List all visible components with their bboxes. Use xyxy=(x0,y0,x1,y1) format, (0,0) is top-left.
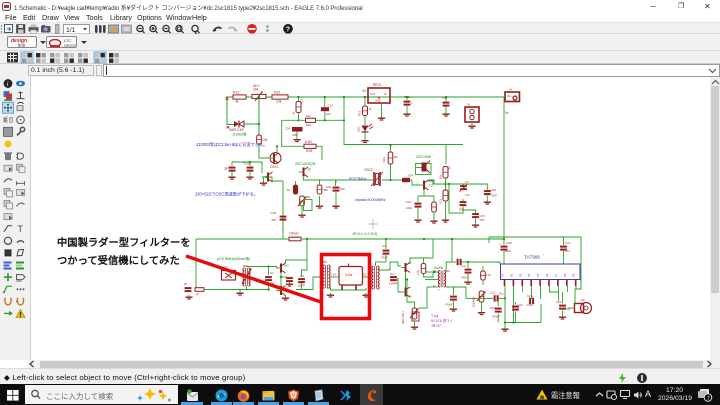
svg-text:IN: IN xyxy=(384,92,387,96)
svg-text:P3: P3 xyxy=(433,285,437,288)
IC pins xyxy=(504,280,506,287)
ground under X1 xyxy=(471,124,473,126)
toolbar row 3 layers xyxy=(0,51,720,64)
resistor RA xyxy=(195,288,204,292)
svg-text:C?L: C?L xyxy=(465,193,471,197)
command row xyxy=(0,64,720,77)
wire bias bus xyxy=(344,97,463,145)
svg-text:9V: 9V xyxy=(362,89,367,93)
svg-text:VARI-CAP: VARI-CAP xyxy=(229,128,244,132)
svg-text:T1は: T1は xyxy=(431,313,439,318)
ground c16 xyxy=(562,315,564,317)
ground under C22 xyxy=(249,175,251,177)
resistor R30 xyxy=(432,202,437,212)
capacitor C16 xyxy=(559,305,566,307)
ground right mixer xyxy=(475,223,477,225)
ground under R8 xyxy=(445,218,447,220)
svg-text:JR+37: JR+37 xyxy=(431,324,441,328)
svg-text:C9: C9 xyxy=(462,264,466,268)
svg-text:C4: C4 xyxy=(390,272,394,276)
svg-text:P7: P7 xyxy=(554,273,558,277)
svg-text:中国製ラダー型フィルターを: 中国製ラダー型フィルターを xyxy=(57,236,191,249)
svg-text:2P: 2P xyxy=(224,167,228,171)
ground filter left xyxy=(330,293,332,295)
svg-text:C38: C38 xyxy=(506,241,512,245)
svg-text:(MD+RD-): (MD+RD-) xyxy=(401,311,405,324)
horizontal scrollbar xyxy=(28,360,720,368)
svg-text:2P: 2P xyxy=(184,282,188,286)
capacitor C8 inline xyxy=(457,259,459,265)
svg-text:6.8C: 6.8C xyxy=(305,140,313,144)
svg-text:5k: 5k xyxy=(307,195,311,199)
svg-text:pCE 8MHz(50mm角): pCE 8MHz(50mm角) xyxy=(217,256,250,261)
svg-text:OSC2: OSC2 xyxy=(364,168,373,172)
svg-text:P4: P4 xyxy=(527,273,531,277)
capacitor C11b 100u xyxy=(415,203,422,205)
svg-text:OSC1: OSC1 xyxy=(270,165,279,169)
svg-text:Y': Y' xyxy=(438,288,441,292)
svg-text:+: + xyxy=(411,101,413,105)
wire t2 collector net xyxy=(429,180,435,184)
capacitor C15 J20 xyxy=(280,216,287,218)
svg-text:2N5: 2N5 xyxy=(284,264,290,268)
ground q2 xyxy=(285,296,287,298)
IC TA7368 body xyxy=(501,264,581,280)
svg-text:R23: R23 xyxy=(300,99,304,104)
svg-text:100u: 100u xyxy=(406,206,413,210)
ground filter right xyxy=(365,293,367,295)
red highlight box xyxy=(322,255,370,319)
resistor R23 xyxy=(296,102,301,113)
node junction varicap-vertical xyxy=(258,97,260,152)
svg-text:J.10: J.10 xyxy=(331,273,336,277)
svg-text:9V+: 9V+ xyxy=(507,94,512,98)
transistor T6 xyxy=(405,288,407,297)
svg-text:22u: 22u xyxy=(565,249,570,253)
svg-text:+: + xyxy=(499,242,501,246)
svg-text:J20: J20 xyxy=(271,218,276,222)
wire t1 top out xyxy=(446,262,452,272)
gray origin cross xyxy=(369,223,378,225)
resistor VR2 xyxy=(388,152,393,164)
wire vcc sub rail xyxy=(298,113,300,121)
svg-text:R25: R25 xyxy=(306,149,312,153)
battery connector BAT xyxy=(503,97,505,239)
resistor R31 1.5k xyxy=(421,264,426,274)
svg-text:R21: R21 xyxy=(233,91,239,95)
svg-text:X1: X1 xyxy=(467,103,471,107)
svg-text:R22: R22 xyxy=(274,91,280,95)
wire mixer out node xyxy=(446,184,488,190)
resistor R29 xyxy=(317,185,322,194)
ground under C34 xyxy=(335,204,337,206)
trimmer ADJ xyxy=(252,94,266,98)
wire q1 q2 cascode xyxy=(280,273,282,287)
svg-text:J10: J10 xyxy=(363,273,368,277)
wire tp emitter net xyxy=(304,177,320,185)
svg-text:T2: T2 xyxy=(429,184,433,188)
capacitor C15b 70P xyxy=(472,213,479,215)
svg-text:1.5k: 1.5k xyxy=(416,269,420,275)
svg-text:C16: C16 xyxy=(556,300,562,304)
svg-text:REG1: REG1 xyxy=(373,83,382,87)
svg-text:C3: C3 xyxy=(382,244,386,248)
wire jp3 nets xyxy=(375,262,377,266)
svg-text:3eP: 3eP xyxy=(492,194,497,198)
svg-text:700P: 700P xyxy=(381,256,388,260)
svg-text:P2: P2 xyxy=(447,270,451,273)
svg-text:R2: R2 xyxy=(394,155,398,159)
resistor R19 xyxy=(363,106,368,116)
title bar xyxy=(0,0,720,12)
capacitor C4 120PP xyxy=(390,276,397,278)
svg-text:C04: C04 xyxy=(326,185,332,189)
wire main bus xyxy=(196,238,289,240)
svg-text:4.7k: 4.7k xyxy=(439,198,443,204)
jack X1 xyxy=(465,107,479,122)
svg-text:J0B: J0B xyxy=(292,133,297,137)
svg-text:C10: C10 xyxy=(328,104,334,108)
svg-text:10u: 10u xyxy=(499,292,504,296)
svg-text:VR2: VR2 xyxy=(382,157,386,163)
svg-text:R19: R19 xyxy=(358,110,362,116)
svg-text:C1: C1 xyxy=(270,271,274,275)
transistor T3 2SC1906 xyxy=(416,164,432,175)
capacitor C1 120PP xyxy=(268,267,270,276)
svg-text:X4tar: X4tar xyxy=(345,273,354,277)
svg-text:J12003等: J12003等 xyxy=(232,132,247,137)
ground tp pair xyxy=(263,181,265,183)
svg-text:7: 7 xyxy=(707,396,710,402)
svg-text:P3: P3 xyxy=(518,273,522,277)
ground REG1 xyxy=(381,116,383,118)
ground VR3 xyxy=(414,325,416,327)
box FF input xyxy=(222,271,236,281)
svg-text:10k: 10k xyxy=(306,114,311,118)
svg-text:V: V xyxy=(292,393,296,399)
crystal filter XF1 xyxy=(339,267,363,286)
capacitor C22 T0.06 xyxy=(247,167,254,169)
svg-text:P2: P2 xyxy=(509,273,513,277)
ground antenna xyxy=(188,295,190,297)
ground c9 xyxy=(467,280,469,282)
capacitor C34b xyxy=(333,187,340,189)
transformer JP3 xyxy=(374,266,376,289)
transistor T2 xyxy=(423,181,425,190)
svg-text:10k: 10k xyxy=(276,100,282,104)
transformer T1 xyxy=(440,271,442,288)
svg-text:crystal=9.000MHz: crystal=9.000MHz xyxy=(355,198,386,202)
svg-text:70P: 70P xyxy=(480,218,485,222)
resistor R22 xyxy=(272,95,288,99)
svg-text:10P: 10P xyxy=(408,174,413,178)
capacitor C14 100u xyxy=(529,298,531,304)
transistor OSC1 xyxy=(270,153,281,164)
wire osc emitter down xyxy=(282,181,284,233)
wire osc out to bus xyxy=(283,223,289,239)
svg-text:J20+622でOSC周波数が下がる。: J20+622でOSC周波数が下がる。 xyxy=(195,191,258,198)
svg-text:TA7368: TA7368 xyxy=(524,255,540,260)
svg-text:C11: C11 xyxy=(406,200,412,204)
svg-text:R7: R7 xyxy=(448,165,452,169)
svg-text:9v: 9v xyxy=(505,111,509,115)
svg-text:JP=0.1~0.2÷8.5(: JP=0.1~0.2÷8.5( xyxy=(352,232,378,236)
ground under C04 xyxy=(486,200,488,202)
ground under LED xyxy=(364,139,366,141)
capacitor C9 470uF xyxy=(467,262,469,268)
wire osc2 left net xyxy=(336,179,375,181)
svg-text:LED: LED xyxy=(357,127,361,132)
wire ic pin nets xyxy=(504,286,506,323)
wire antenna link xyxy=(204,289,237,291)
taskbar xyxy=(0,384,720,405)
wire top 9V bus xyxy=(226,96,504,98)
svg-text:*: * xyxy=(543,253,545,257)
transistor Q1 rf amp xyxy=(280,264,282,273)
ground under R28 xyxy=(301,213,303,215)
wire green frame ic xyxy=(489,237,581,289)
svg-text:P6: P6 xyxy=(545,273,549,277)
wire tp base pair xyxy=(262,177,283,181)
capacitor C24 J0B xyxy=(292,127,303,132)
svg-text:T6: T6 xyxy=(408,295,412,299)
svg-text:10k: 10k xyxy=(262,138,268,142)
svg-text:104: 104 xyxy=(326,112,331,116)
svg-text:100u: 100u xyxy=(527,303,533,307)
svg-text:20k: 20k xyxy=(439,174,443,179)
svg-text:P9: P9 xyxy=(572,273,576,277)
wire t1 left pins xyxy=(425,271,438,273)
ground under C11 xyxy=(445,112,447,114)
svg-text:C11: C11 xyxy=(490,291,496,295)
wire rf1 top net xyxy=(247,266,269,268)
left toolbar xyxy=(0,77,31,360)
canvas xyxy=(31,77,710,360)
capacitor C7b 470uF xyxy=(446,287,453,295)
svg-text:2SC1815QR: 2SC1815QR xyxy=(295,162,316,166)
svg-text:P8: P8 xyxy=(563,273,567,277)
capacitor C7 xyxy=(463,184,465,186)
svg-text:100uH: 100uH xyxy=(289,232,299,236)
wire t5 t6 link xyxy=(405,272,407,288)
wire t1 sec out xyxy=(454,287,476,298)
svg-text:470uF: 470uF xyxy=(445,303,453,307)
svg-text:1k: 1k xyxy=(287,188,291,192)
wire t5 out to t1 xyxy=(424,272,438,277)
wire c2 to jp2 xyxy=(296,283,302,290)
vertical scrollbar xyxy=(710,77,720,367)
wire top-left drop to varicap xyxy=(227,97,234,125)
wire t5 collector xyxy=(410,258,424,263)
svg-text:1k: 1k xyxy=(369,107,373,111)
svg-text:220u: 220u xyxy=(505,249,512,253)
capacitor C11c xyxy=(494,295,496,301)
svg-text:P1: P1 xyxy=(501,273,505,277)
voltage regulator REG1 xyxy=(368,88,390,103)
svg-text:3.3u: 3.3u xyxy=(486,273,492,277)
wire rf1 bottom net xyxy=(237,289,269,291)
svg-text:C37: C37 xyxy=(565,241,571,245)
capacitor C24 50P xyxy=(460,201,467,203)
varicap D1 xyxy=(234,121,239,127)
ground ic xyxy=(504,327,506,329)
resistor R21 xyxy=(233,95,246,99)
red pointer line xyxy=(186,256,321,302)
ground under C13 xyxy=(406,112,408,114)
svg-text:10P: 10P xyxy=(340,187,345,191)
transistor Q2 rf amp xyxy=(280,286,282,295)
svg-text:C2: C2 xyxy=(300,274,304,278)
capacitor C21 2P xyxy=(229,167,236,169)
toolbar row 1 xyxy=(0,22,720,34)
status bar xyxy=(0,368,720,384)
ground under C11b xyxy=(417,218,419,220)
svg-text:+10u: +10u xyxy=(517,303,523,307)
toolbar row 2 xyxy=(0,34,720,51)
capacitor C23 10P xyxy=(402,178,410,182)
svg-text:1k: 1k xyxy=(196,292,200,296)
svg-text:3k: 3k xyxy=(235,100,239,104)
svg-text:30k: 30k xyxy=(253,88,259,92)
svg-text:120PP: 120PP xyxy=(389,282,398,286)
wire bus left drop xyxy=(195,239,197,287)
svg-text:P5: P5 xyxy=(536,273,540,277)
transistor T5 xyxy=(405,263,407,272)
resistor R27 dark xyxy=(293,185,297,194)
svg-text:C7: C7 xyxy=(465,180,469,184)
capacitor CA 2P xyxy=(185,287,192,289)
capacitor C04 70P xyxy=(484,190,491,192)
svg-text:+9: +9 xyxy=(509,88,513,92)
trimmer R28 xyxy=(300,196,305,206)
capacitor C12 10u xyxy=(512,306,519,308)
resistor R25 xyxy=(304,144,316,148)
wire r25 net xyxy=(316,146,322,160)
ground under C24 xyxy=(296,138,298,140)
capacitor C2 20PP xyxy=(298,278,305,280)
ground c7b xyxy=(453,307,455,309)
resistor R24 xyxy=(306,118,316,122)
svg-text:C10: C10 xyxy=(490,306,496,310)
svg-text:C15: C15 xyxy=(270,211,276,215)
ground rf1 xyxy=(239,291,241,293)
svg-text:SP: SP xyxy=(581,298,585,302)
capacitor C11 bulk xyxy=(443,102,450,104)
LED1 xyxy=(364,116,366,126)
menu bar xyxy=(0,12,720,22)
svg-text:2SC1906: 2SC1906 xyxy=(416,155,431,159)
resistor R33 xyxy=(481,271,486,280)
transistor TP buffer xyxy=(303,168,305,177)
svg-text:50P: 50P xyxy=(459,208,464,212)
svg-text:C14+: C14+ xyxy=(527,294,534,298)
svg-text:TP: TP xyxy=(307,168,311,172)
wire q collector up xyxy=(286,239,308,263)
svg-text:RF1: RF1 xyxy=(243,264,249,268)
capacitor C10b 470uF xyxy=(495,308,502,310)
resistor R26 on varicap line xyxy=(257,135,262,144)
svg-text:5Y-57A 虎コイ: 5Y-57A 虎コイ xyxy=(431,318,453,323)
ground under R30 xyxy=(433,219,435,221)
capacitor C10 104 xyxy=(321,107,329,111)
capacitor C37 22u xyxy=(560,246,567,248)
resistor R8 lower xyxy=(443,190,448,201)
svg-text:つかって受信機にしてみた: つかって受信機にしてみた xyxy=(57,254,180,267)
resistor R7 xyxy=(443,167,448,179)
wire emitter t2 down xyxy=(418,190,424,197)
svg-text:R24: R24 xyxy=(306,123,312,127)
ground vol xyxy=(481,311,483,313)
speaker SP1 xyxy=(575,304,584,313)
svg-text:C24: C24 xyxy=(285,127,291,131)
capacitor C13 xyxy=(404,101,411,103)
svg-text:OUT: OUT xyxy=(370,92,376,96)
svg-text:470uF: 470uF xyxy=(492,315,500,319)
svg-text:C04: C04 xyxy=(491,188,497,192)
svg-text:GND: GND xyxy=(375,99,381,103)
ground under R29 xyxy=(319,204,321,206)
capacitor C38 220u xyxy=(501,246,508,248)
wire filter gnd net xyxy=(327,288,367,290)
svg-text:1k: 1k xyxy=(292,111,296,114)
ground under C21 xyxy=(231,175,233,177)
wire emitter caps link xyxy=(232,161,250,163)
svg-text:10kA(B): 10kA(B) xyxy=(472,297,476,307)
